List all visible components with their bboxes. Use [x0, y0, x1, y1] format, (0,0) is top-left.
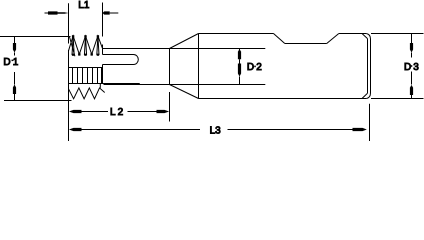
cone end vertical: [198, 34, 200, 99]
dimension D2 arrow upper: [238, 49, 241, 64]
cone top diagonal: [170, 34, 199, 49]
flute band bottom line / hidden flute edge: [69, 83, 140, 85]
flute vertical 2: [77, 68, 79, 84]
svg-text:D: D: [404, 62, 411, 73]
cone start vertical: [169, 49, 171, 85]
head right edge upper vertical: [102, 45, 104, 55]
dimension L1 left arrow: [45, 11, 69, 14]
flute vertical 1: [72, 68, 74, 84]
thread tooth sliver 2: [84, 36, 86, 55]
svg-text:1: 1: [13, 57, 19, 68]
svg-text:2: 2: [256, 62, 262, 73]
dimension D1 arrow upper: [13, 37, 16, 56]
flute slot bottom edge: [103, 64, 134, 66]
svg-text:L1: L1: [78, 0, 90, 11]
L3 right extension line: [369, 104, 371, 141]
flute vertical 3: [82, 68, 84, 84]
thread profile top zigzag: [69, 36, 103, 54]
flute vertical 7: [101, 68, 103, 84]
L1 right extension line: [102, 3, 104, 37]
shank bottom line: [199, 98, 367, 100]
tool tip edge / L2 L3 extension vertical: [68, 50, 70, 141]
shank top line left of groove: [199, 33, 274, 35]
L1 left extension line: [68, 3, 70, 43]
neck bottom line continuing to D2 lines: [104, 84, 266, 86]
dimension D3 arrow upper: [410, 34, 413, 58]
dimension L3 right arrow: [228, 128, 367, 131]
neck top line continuing to D2 lines: [103, 48, 266, 50]
shank end bottom chamfer: [362, 93, 368, 98]
thread vertex dots: [72, 35, 99, 56]
svg-text:L3: L3: [210, 125, 222, 136]
flute vertical 4: [87, 68, 89, 84]
groove left slope: [274, 34, 285, 44]
shank end inner vertical: [367, 39, 369, 94]
dimension L2 right arrow: [128, 110, 170, 113]
dimension D3 arrow lower: [410, 72, 413, 99]
D1 top extension line: [0, 36, 71, 38]
thread tooth sliver 3: [97, 36, 99, 55]
dimension L3 left arrow: [69, 128, 200, 131]
head right edge lower vertical: [102, 65, 104, 84]
flute band top line / slot bottom edge: [69, 67, 103, 69]
groove right slope: [327, 34, 339, 44]
shank end outer curve: [366, 34, 370, 99]
thread profile bottom zigzag: [69, 88, 105, 99]
flute vertical 6: [97, 68, 99, 84]
step from hidden flute edge to neck bottom: [139, 84, 141, 85]
shank top line right of groove: [339, 33, 367, 35]
dimension L2 left arrow: [69, 110, 108, 113]
svg-text:D: D: [3, 57, 10, 68]
thread tooth sliver 1: [72, 36, 74, 55]
groove bottom line: [285, 43, 327, 45]
svg-text:3: 3: [413, 62, 419, 73]
flute slot top edge: [103, 54, 134, 56]
D3 top extension line: [371, 33, 424, 35]
shank end top chamfer: [362, 34, 368, 39]
bottom zigzag tick to flute band: [99, 84, 101, 88]
thread partial tooth flank at corner: [69, 37, 75, 57]
svg-text:2: 2: [118, 107, 124, 118]
flute slot rounded end: [134, 55, 139, 65]
L2 right extension line: [169, 92, 171, 122]
flute vertical 5: [92, 68, 94, 84]
dimension L1 right arrow: [103, 11, 119, 14]
svg-text:L: L: [110, 107, 116, 118]
cone bottom diagonal: [170, 85, 199, 99]
dimension D1 arrow lower: [13, 72, 16, 100]
D3 bottom extension line: [371, 98, 424, 100]
dimension D2 arrow lower: [238, 64, 241, 85]
D1 bottom extension line: [4, 100, 72, 102]
svg-text:D: D: [247, 62, 254, 73]
